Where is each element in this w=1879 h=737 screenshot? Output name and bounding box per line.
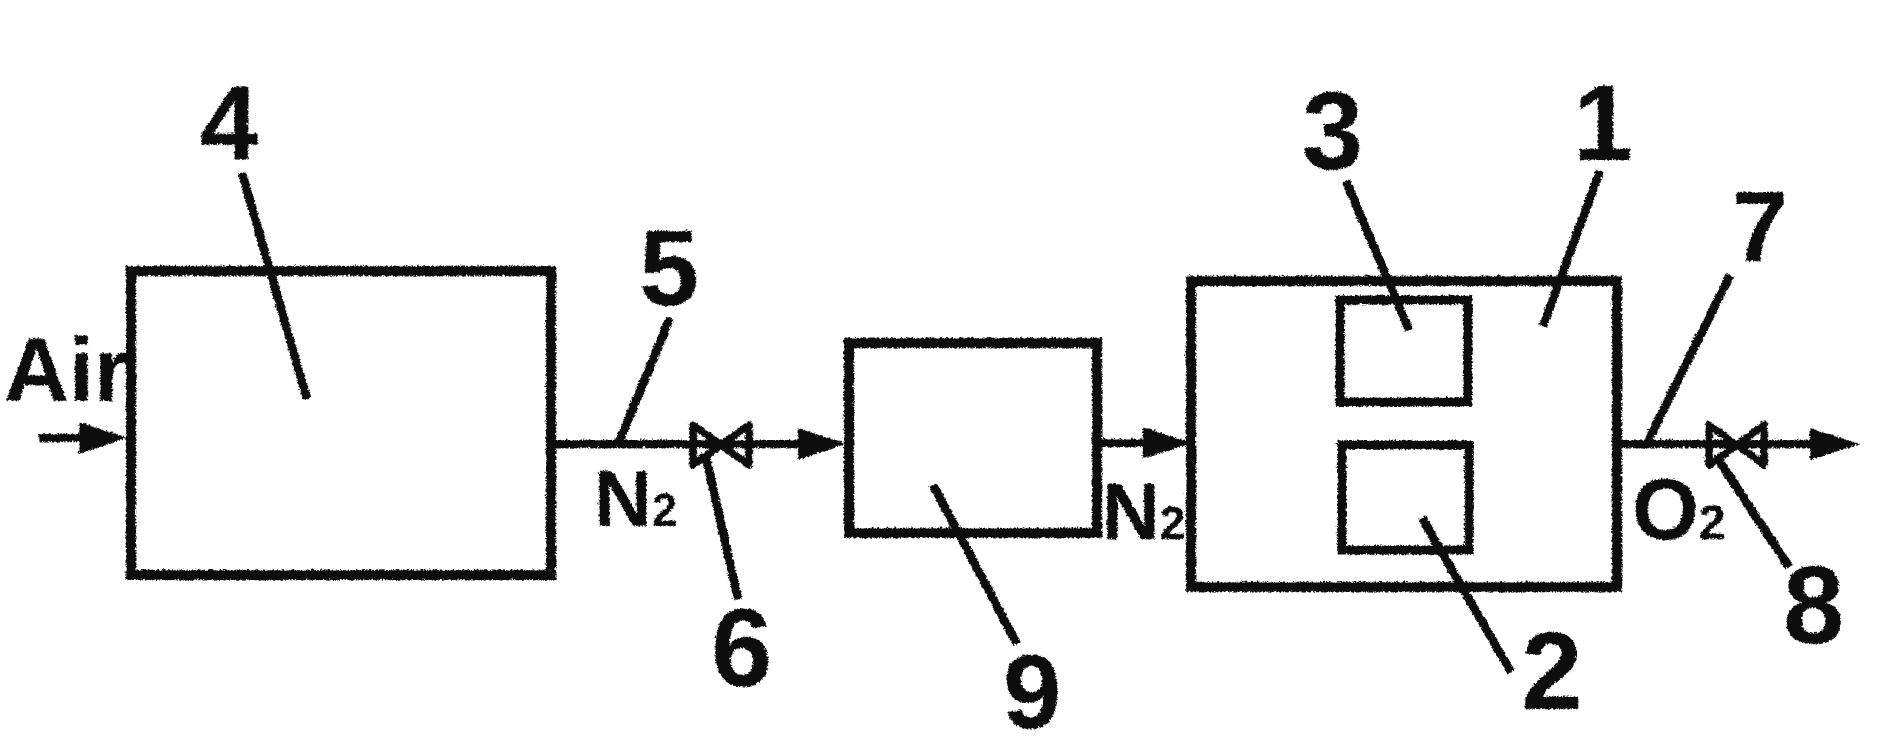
inner box 3 bbox=[1339, 299, 1467, 401]
leader line 5 bbox=[618, 317, 669, 441]
svg-text:Air: Air bbox=[3, 320, 128, 420]
box 1 bbox=[1190, 280, 1616, 586]
svg-text:2: 2 bbox=[1520, 609, 1581, 732]
valve 8 bbox=[1708, 424, 1763, 464]
leader line 1 bbox=[1542, 170, 1599, 325]
svg-text:8: 8 bbox=[1782, 543, 1843, 666]
svg-text:7: 7 bbox=[1731, 170, 1787, 282]
svg-text:N2: N2 bbox=[1101, 466, 1184, 555]
svg-text:3: 3 bbox=[1301, 69, 1362, 192]
valve 6 bbox=[692, 424, 748, 464]
leader line 2 bbox=[1421, 517, 1510, 671]
svg-text:9: 9 bbox=[1002, 633, 1060, 737]
box 4 bbox=[130, 270, 550, 574]
leader line 4 bbox=[241, 172, 306, 398]
leader line 7 bbox=[1647, 274, 1729, 440]
wire: box 9 to box 1 with arrowhead bbox=[1096, 438, 1145, 446]
leader line 8 bbox=[1715, 455, 1788, 566]
svg-text:5: 5 bbox=[638, 206, 698, 327]
leader line 9 bbox=[932, 484, 1016, 643]
wire: box 1 to valve 8 bbox=[1616, 439, 1770, 447]
box 9 bbox=[848, 342, 1096, 532]
wire: box 4 to valve 6 bbox=[550, 439, 800, 447]
wire: Air inlet arrow into box 4 bbox=[38, 433, 85, 441]
leader line 3 bbox=[1345, 180, 1408, 329]
svg-text:6: 6 bbox=[710, 586, 771, 709]
svg-text:O2: O2 bbox=[1631, 461, 1725, 557]
wire: valve 6 to box 9 with arrowhead bbox=[797, 427, 845, 459]
svg-text:N2: N2 bbox=[593, 453, 676, 542]
wire: valve 8 outlet arrow bbox=[1763, 439, 1815, 447]
svg-text:4: 4 bbox=[199, 64, 257, 181]
svg-text:1: 1 bbox=[1572, 61, 1632, 182]
leader line 6 bbox=[704, 452, 737, 598]
inner box 2 bbox=[1341, 444, 1468, 549]
